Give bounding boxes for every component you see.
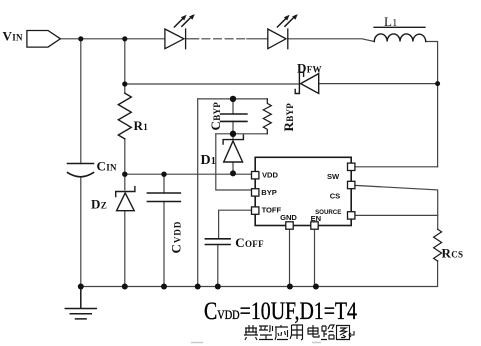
- svg-text:BYP: BYP: [261, 188, 276, 197]
- svg-text:GND: GND: [280, 213, 297, 222]
- svg-text:SW: SW: [327, 172, 340, 181]
- svg-text:D1: D1: [201, 153, 217, 168]
- svg-text:TOFF: TOFF: [262, 206, 282, 215]
- svg-text:CS: CS: [330, 191, 340, 200]
- svg-text:VDD: VDD: [262, 170, 278, 179]
- svg-text:EN: EN: [311, 214, 321, 223]
